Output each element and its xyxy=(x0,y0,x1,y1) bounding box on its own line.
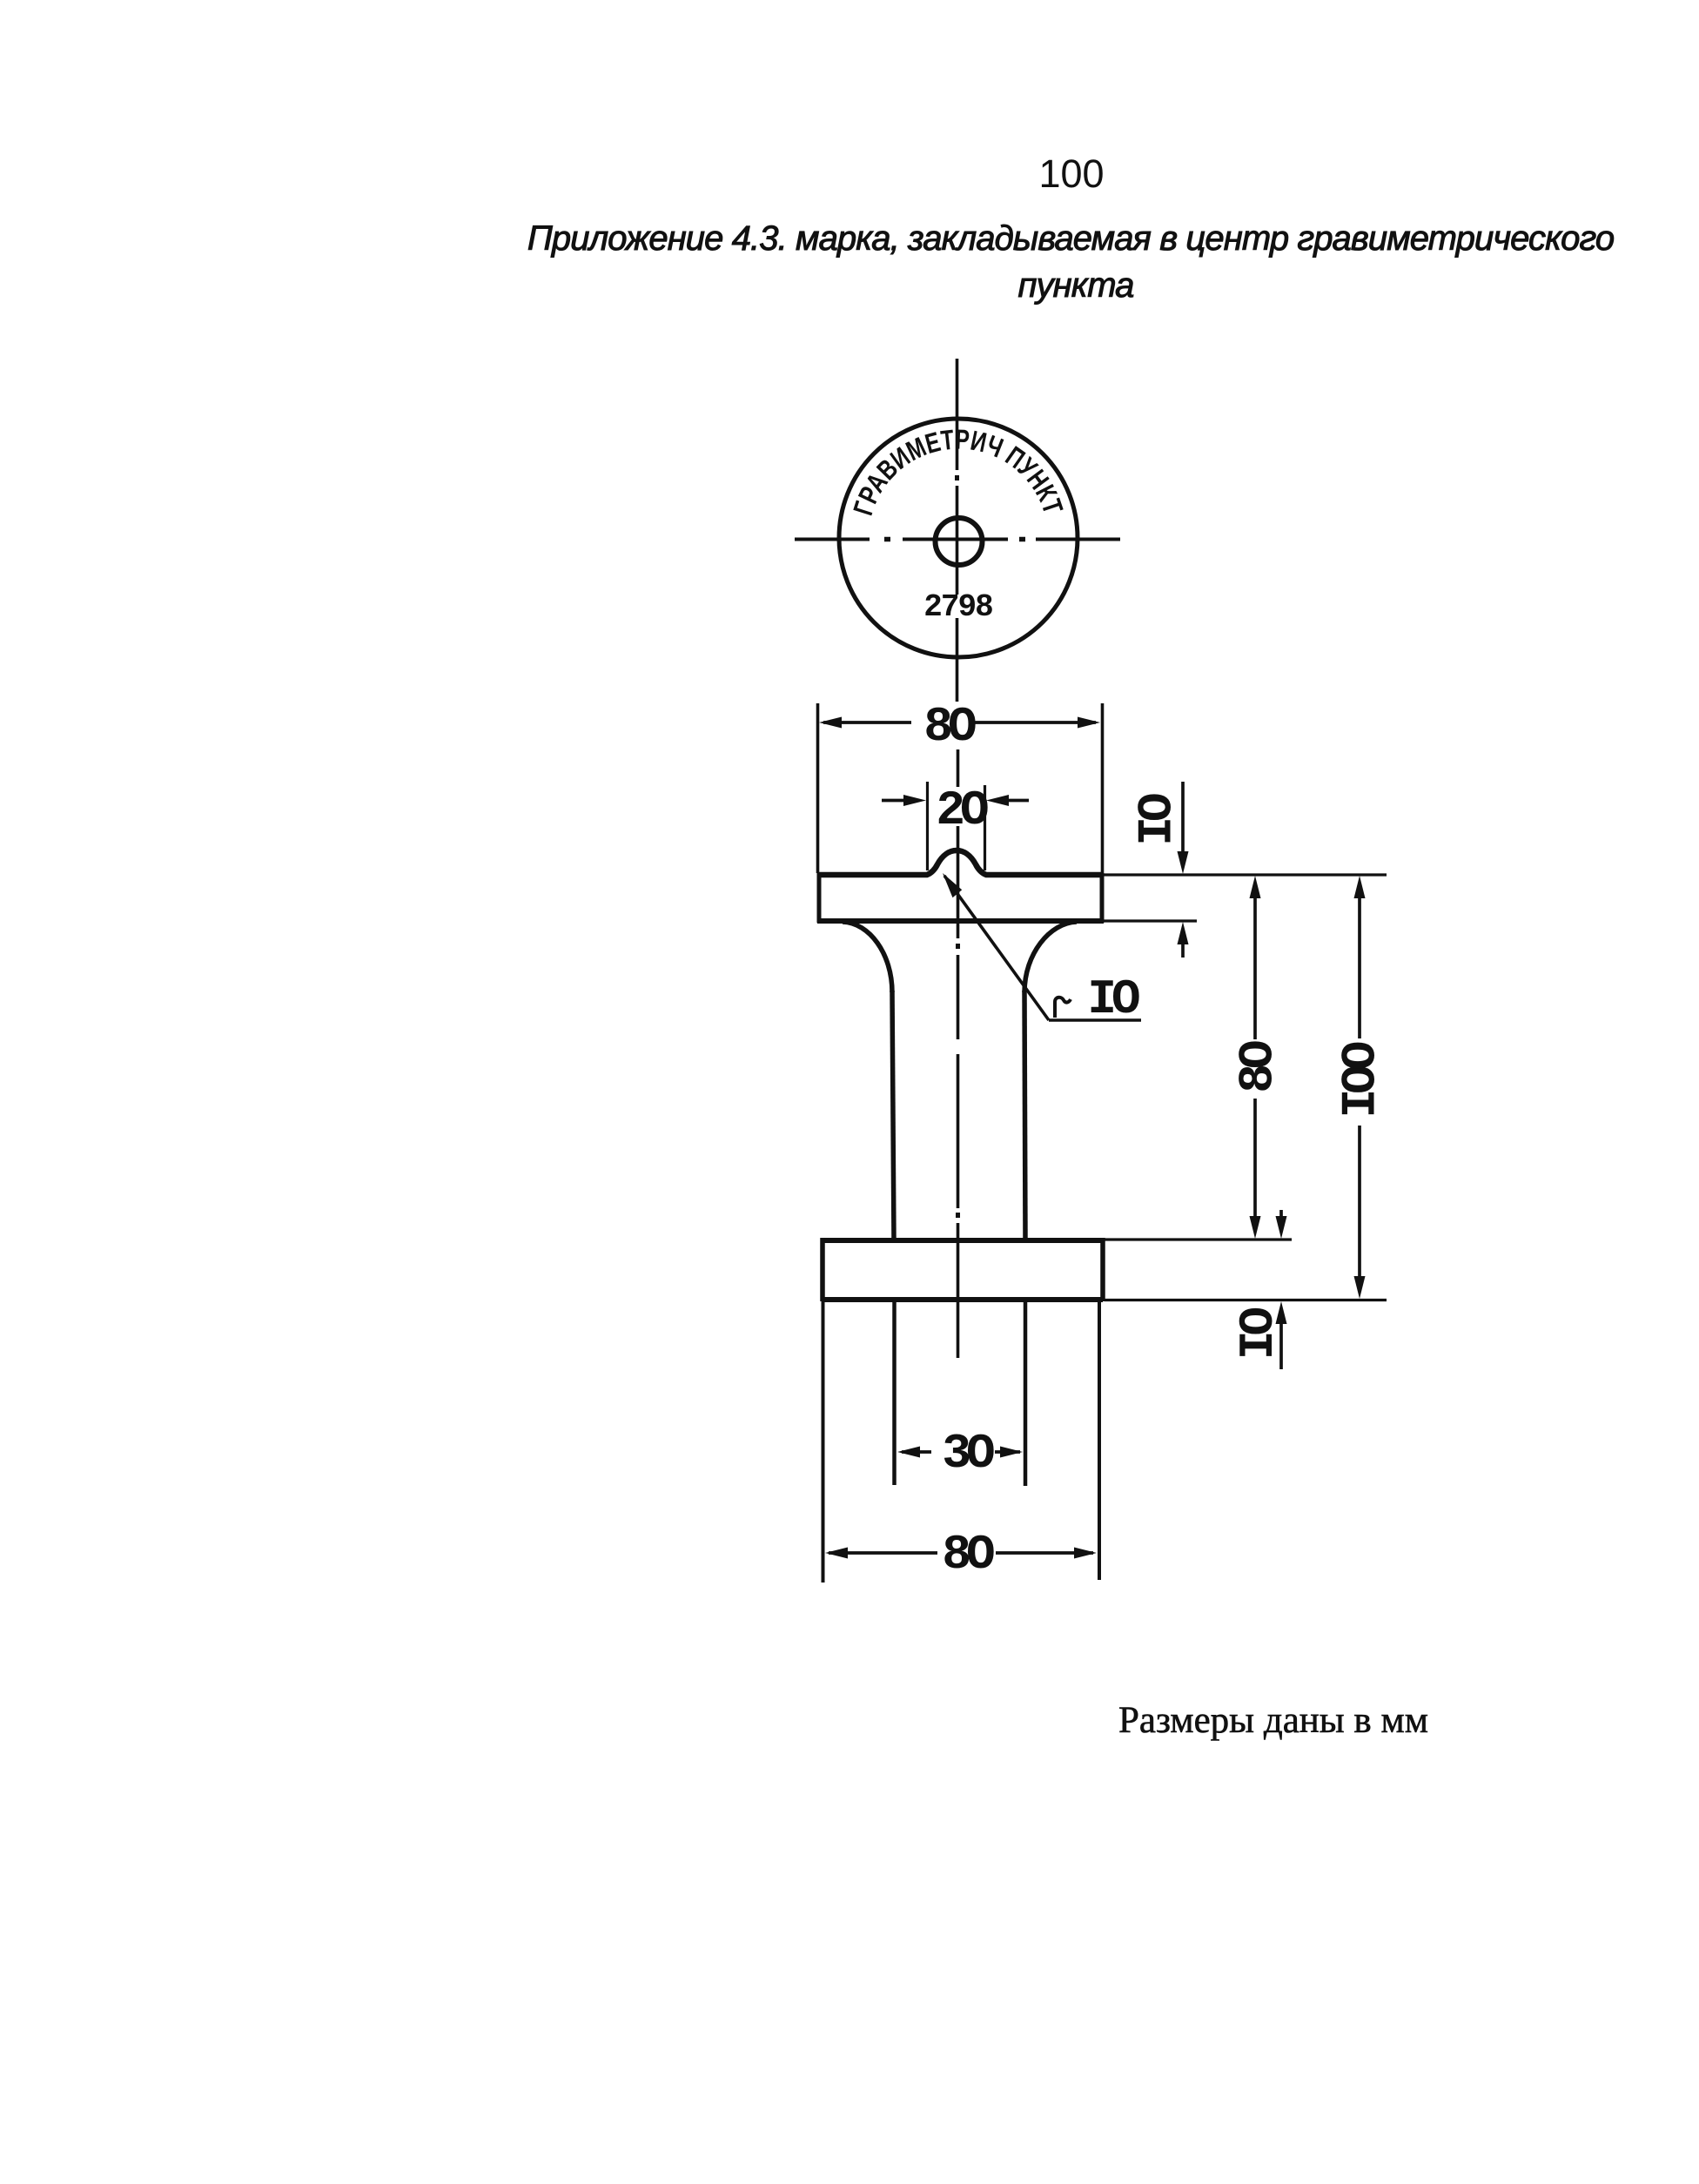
dimension 80 (bottom width) line and arrows xyxy=(825,1548,1097,1559)
svg-text:IOO: IOO xyxy=(1333,1042,1389,1118)
dimension 10 (flange height) line and arrows xyxy=(1276,1210,1287,1369)
dimension 30 (stem width) line and arrows xyxy=(897,1447,1023,1458)
flange left edge xyxy=(820,1238,825,1301)
dimension 100 (total height) line and arrows xyxy=(1354,876,1366,1299)
dimension 80 (top width) line and arrows xyxy=(819,717,1100,729)
dimension 80 (body height) line and arrows xyxy=(1250,876,1261,1239)
flange top extension line (right) xyxy=(1105,1238,1292,1240)
cap top face with central boss (section view) xyxy=(819,850,1102,875)
radius leader underline xyxy=(1049,1018,1141,1022)
svg-text:Приложение 4.3. марка, заклады: Приложение 4.3. марка, закладываемая в ц… xyxy=(527,219,1614,258)
svg-text:IO: IO xyxy=(1087,971,1139,1027)
svg-text:Размеры даны в мм: Размеры даны в мм xyxy=(1118,1700,1428,1741)
vertical centerline (dash-dot) xyxy=(957,359,958,1358)
flange top line xyxy=(823,1238,1103,1243)
outer circle (plan view of mark) xyxy=(839,419,1078,657)
radius r mark xyxy=(1055,998,1071,1018)
inner circle (center hole) xyxy=(936,518,983,565)
left fillet under cap xyxy=(843,922,892,992)
flange bottom extension line (right) xyxy=(1105,1299,1387,1301)
svg-text:8O: 8O xyxy=(923,699,976,755)
stem right edge xyxy=(1024,991,1025,1240)
cap bottom line xyxy=(817,918,1104,924)
radius leader line xyxy=(944,876,1049,1020)
dimension 80 (top width) extension lines xyxy=(816,703,820,873)
curved label ГРАВИМЕТРИЧ ПУНКТ xyxy=(847,423,1069,519)
svg-text:IO: IO xyxy=(1231,1308,1286,1361)
svg-text:IO: IO xyxy=(1130,794,1185,846)
svg-text:100: 100 xyxy=(1038,151,1104,196)
flange bottom line xyxy=(823,1297,1103,1302)
svg-text:3O: 3O xyxy=(942,1426,994,1482)
flange extension lines below (for bottom 80) xyxy=(822,1300,825,1583)
flange right edge xyxy=(1100,1238,1105,1301)
cap left edge xyxy=(817,873,822,923)
cap right edge xyxy=(1100,873,1105,923)
dimension 10 (cap height) line and arrows xyxy=(1178,782,1189,958)
dimension 20 line and arrows xyxy=(882,795,1029,806)
svg-text:2798: 2798 xyxy=(923,589,992,625)
stem left edge xyxy=(892,991,894,1240)
svg-text:8O: 8O xyxy=(1231,1041,1286,1093)
svg-text:пункта: пункта xyxy=(1017,266,1133,305)
cap bottom extension line (right) xyxy=(1104,919,1197,922)
top face extension line (right) xyxy=(1104,873,1387,876)
radius leader arrowhead xyxy=(943,873,962,897)
svg-text:2O: 2O xyxy=(936,783,988,838)
horizontal centerline (dash-dot) xyxy=(795,538,1120,541)
dimension 20 (boss width) extension lines xyxy=(926,782,929,870)
stem extension lines below flange (for 30) xyxy=(892,1300,897,1485)
right fillet under cap xyxy=(1024,922,1077,992)
svg-text:8O: 8O xyxy=(942,1527,994,1583)
